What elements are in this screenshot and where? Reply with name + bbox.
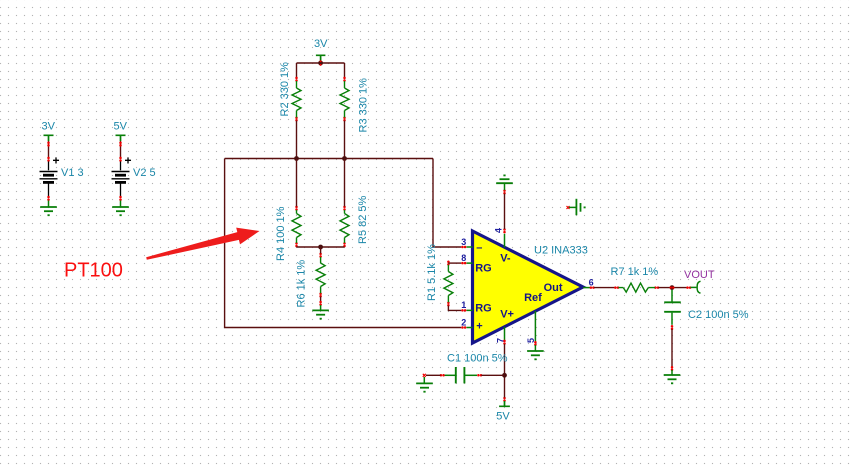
- pin end tick (Ref pin): [534, 341, 537, 346]
- svg-text:3V: 3V: [314, 38, 328, 50]
- wire (R1 bottom to pin 1): [448, 306, 461, 311]
- ground (below C2): [664, 370, 681, 383]
- wire (main node row): [225, 158, 433, 160]
- pin end tick x (C1 ground): [423, 374, 426, 377]
- wire (R7 to VOUT node): [658, 287, 686, 289]
- svg-text:RG: RG: [475, 303, 492, 315]
- battery V2: [112, 162, 130, 197]
- svg-text:C2 100n 5%: C2 100n 5%: [688, 309, 749, 321]
- wire (R2 bottom to node row): [296, 121, 298, 159]
- svg-text:RG: RG: [475, 262, 492, 274]
- svg-text:R5 82 5%: R5 82 5%: [357, 195, 369, 244]
- power flag 3V (above battery V1): [44, 135, 54, 141]
- capacitor C1 100n 5%: [440, 367, 483, 383]
- svg-text:3V: 3V: [42, 121, 56, 133]
- svg-text:+: +: [53, 154, 60, 168]
- ground (above op-amp, pointing up): [496, 175, 513, 190]
- op-amp V+ pin lead (pin 7): [504, 327, 506, 340]
- pin end ticks (battery V2 top): [119, 142, 122, 162]
- resistor R4 100 1%: [292, 159, 301, 248]
- svg-text:4: 4: [494, 228, 504, 233]
- junction node A (R2/R4): [294, 156, 299, 161]
- battery symbol (unconnected, top right of op-amp): [567, 199, 586, 215]
- junction (bridge top): [318, 61, 323, 66]
- wire (C1 right to V+ junction): [481, 374, 504, 376]
- resistor R7 1k 1%: [614, 283, 659, 292]
- pin end tick (VOUT lead): [686, 286, 691, 289]
- junction (R6 tap): [318, 245, 323, 250]
- op-amp Ref pin lead (pin 5): [534, 311, 536, 341]
- wire (C1 left to ground): [426, 374, 441, 376]
- svg-text:5V: 5V: [114, 121, 128, 133]
- pin end tick (battery V1 bottom): [47, 196, 50, 201]
- svg-text:C1 100n 5%: C1 100n 5%: [447, 353, 508, 365]
- svg-text:+: +: [125, 154, 132, 168]
- capacitor C2 100n 5%: [664, 290, 681, 330]
- svg-text:R3 330 1%: R3 330 1%: [358, 78, 370, 133]
- net connector lead VOUT: [690, 286, 696, 288]
- op-amp U2 INA333 triangle: [473, 231, 584, 343]
- svg-text:+: +: [476, 321, 482, 333]
- annotation red arrow: [146, 228, 259, 260]
- resistor R2 330 1%: [292, 77, 301, 122]
- op-amp Out pin lead (pin 6): [583, 287, 590, 289]
- junction tick (power pin): [320, 60, 322, 66]
- svg-text:VOUT: VOUT: [684, 269, 715, 281]
- op-amp V- pin lead (pin 4): [504, 234, 506, 248]
- wire (right drop to op-amp - input): [433, 159, 461, 248]
- svg-text:V-: V-: [500, 252, 511, 264]
- junction (VOUT / C2): [670, 285, 675, 290]
- svg-text:R7 1k 1%: R7 1k 1%: [611, 266, 659, 278]
- resistor R5 82 5%: [340, 159, 349, 248]
- svg-text:R4 100 1%: R4 100 1%: [275, 206, 287, 261]
- battery V1: [40, 162, 58, 197]
- ground (left of C1): [416, 377, 433, 392]
- svg-text:5V: 5V: [496, 411, 510, 423]
- wire (Out to R7): [594, 287, 616, 289]
- resistor R3 330 1%: [340, 77, 349, 122]
- pin end tick (C2 ground): [671, 366, 674, 371]
- svg-text:V2 5: V2 5: [133, 167, 156, 179]
- ground (below battery V1): [40, 201, 57, 216]
- wire (C2 to ground): [671, 329, 673, 366]
- junction tick: [670, 286, 675, 288]
- wire (V+ down to 5V): [504, 344, 506, 398]
- pin end tick (battery V2 bottom): [119, 196, 122, 201]
- svg-text:V+: V+: [500, 308, 514, 320]
- resistor R1 5.1k 1%: [444, 261, 453, 307]
- svg-text:–: –: [476, 242, 482, 254]
- svg-text:3: 3: [461, 237, 466, 247]
- svg-text:Ref: Ref: [524, 292, 542, 304]
- svg-text:PT100: PT100: [64, 260, 123, 282]
- ground (below battery V2): [112, 201, 129, 216]
- svg-text:R2 330 1%: R2 330 1%: [279, 62, 291, 117]
- ground (below R6): [312, 305, 329, 319]
- svg-text:8: 8: [461, 253, 466, 263]
- wire (V- to ground above): [504, 194, 506, 230]
- pin end ticks (V+ pin / 5V pin): [503, 340, 506, 402]
- ground (Ref pin): [527, 345, 544, 359]
- svg-text:1: 1: [461, 300, 466, 310]
- op-amp input pin leads and ticks (pins 3,8,1,2): [467, 247, 473, 328]
- svg-text:V1 3: V1 3: [61, 167, 84, 179]
- wire (R3 bottom to node row): [344, 121, 346, 159]
- wire (bridge bottom between R4 and R5): [297, 246, 345, 248]
- svg-text:R6 1k 1%: R6 1k 1%: [296, 260, 308, 308]
- junction node B (R3/R5): [342, 156, 347, 161]
- resistor R6 1k 1%: [316, 247, 325, 298]
- net connector hook VOUT: [697, 281, 700, 293]
- svg-text:6: 6: [589, 277, 594, 287]
- wire (R1 top to pin 8): [448, 262, 461, 264]
- pin end ticks (battery V1 top): [47, 142, 50, 162]
- power flag 3V (bridge top): [316, 55, 326, 62]
- svg-text:2: 2: [461, 317, 466, 327]
- svg-text:U2 INA333: U2 INA333: [534, 245, 588, 257]
- power flag 5V (above battery V2): [116, 135, 126, 141]
- junction (V+ / C1): [502, 373, 507, 378]
- wire (left loop down to op-amp + input): [225, 159, 462, 328]
- wire (power flag to battery V1): [48, 141, 50, 157]
- svg-text:R1 5.1k 1%: R1 5.1k 1%: [426, 244, 438, 301]
- wire (bridge top rail): [297, 63, 345, 78]
- wire (power flag to battery V2): [120, 141, 122, 157]
- pin end tick (R6 ground): [319, 301, 322, 306]
- svg-text:Out: Out: [544, 282, 563, 294]
- wire (R6 to ground): [320, 297, 322, 303]
- power flag 5V (below op-amp): [499, 401, 510, 406]
- pin end tick (Out): [590, 286, 595, 289]
- pin end ticks (V- pin / ground pin): [503, 189, 506, 233]
